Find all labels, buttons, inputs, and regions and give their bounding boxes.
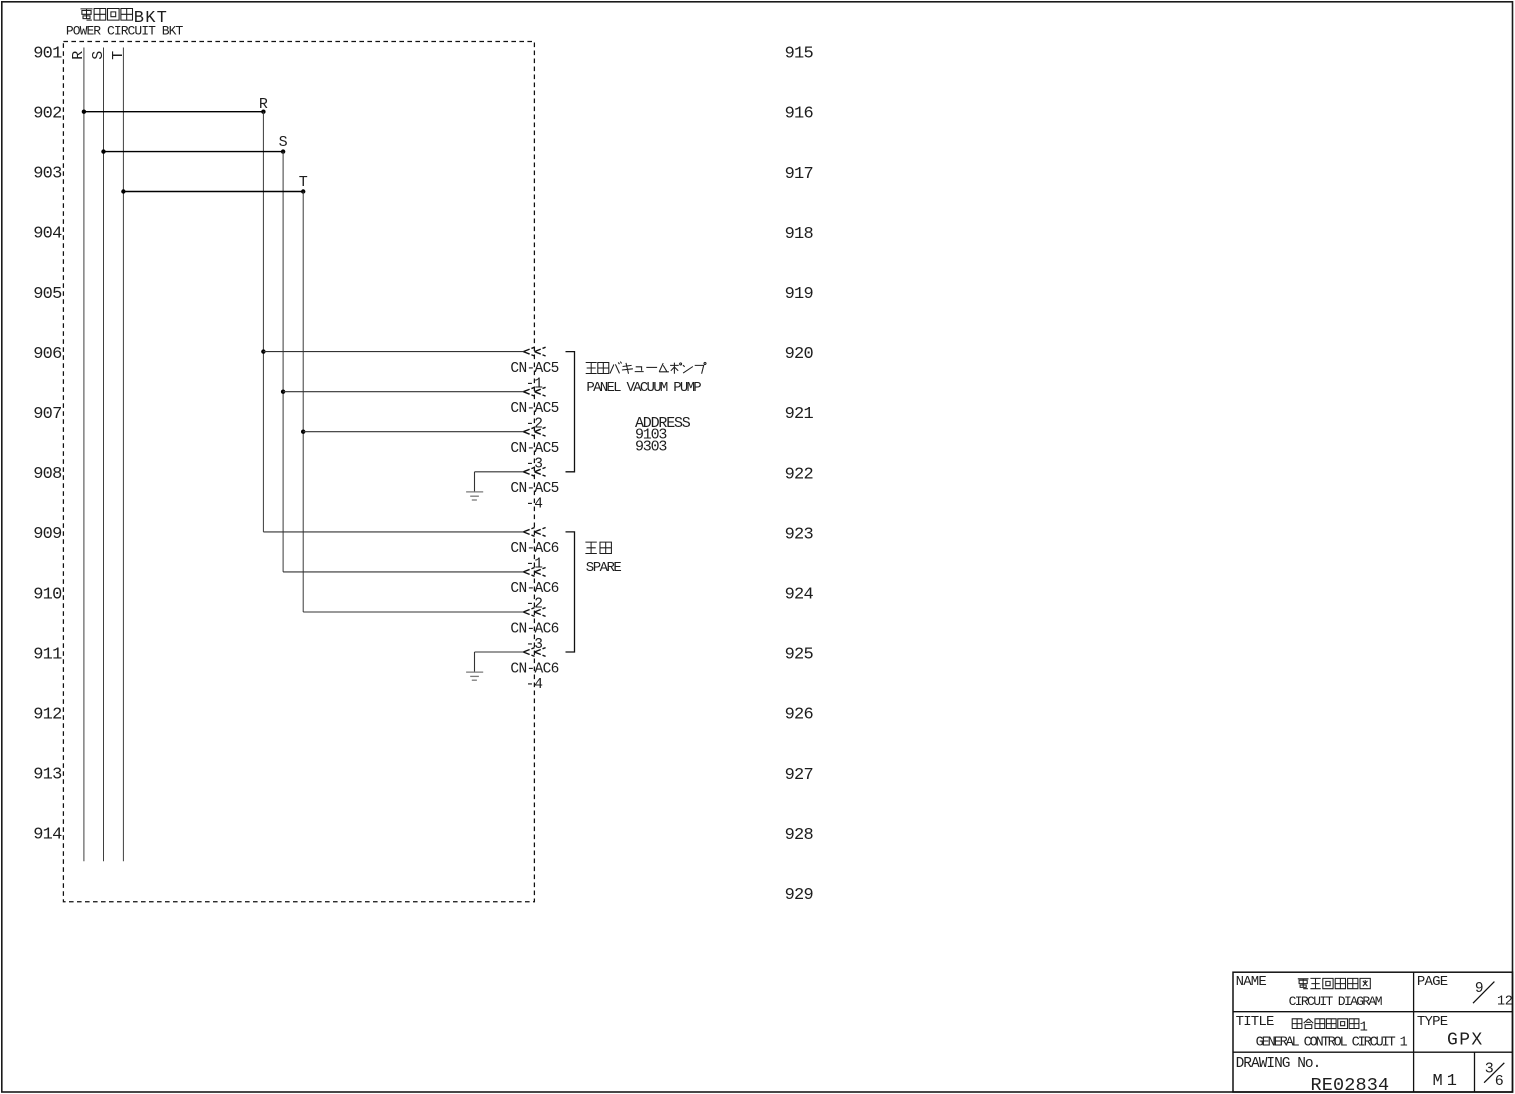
wire to CN-AC5-2 xyxy=(283,391,523,393)
svg-text:911: 911 xyxy=(33,645,62,664)
junction dot S branch to CN-AC5-2 xyxy=(281,390,285,394)
junction dot wire T top xyxy=(301,189,305,193)
svg-text:918: 918 xyxy=(785,225,814,244)
connector contact CN-AC5-1 xyxy=(523,347,545,356)
svg-text:901: 901 xyxy=(33,44,62,63)
svg-text:T: T xyxy=(110,51,127,60)
connector contact CN-AC6-1 xyxy=(523,528,545,537)
svg-text:SPARE: SPARE xyxy=(586,560,622,576)
svg-text:RE02834: RE02834 xyxy=(1311,1075,1390,1094)
svg-text:916: 916 xyxy=(785,105,814,124)
title block frame xyxy=(1233,972,1513,1092)
svg-text:929: 929 xyxy=(785,886,814,905)
svg-text:912: 912 xyxy=(33,706,61,725)
svg-text:903: 903 xyxy=(33,165,62,184)
bracket CN-AC6 group xyxy=(566,532,575,652)
svg-text:905: 905 xyxy=(33,285,62,304)
svg-text:M1: M1 xyxy=(1433,1072,1461,1091)
svg-text:POWER CIRCUIT BKT: POWER CIRCUIT BKT xyxy=(66,24,184,39)
svg-text:-4: -4 xyxy=(526,497,543,513)
connector contact CN-AC5-4 xyxy=(523,467,545,476)
wire to CN-AC6-1 xyxy=(263,531,523,533)
label 電気回路線図 (circuit diagram, Japanese) xyxy=(1298,978,1371,988)
wire S phase horizontal xyxy=(104,151,284,153)
junction dot wire R top xyxy=(261,110,265,114)
svg-text:913: 913 xyxy=(33,766,62,785)
bus S vertical line xyxy=(103,48,105,862)
svg-text:906: 906 xyxy=(33,345,62,364)
connector contact CN-AC5-3 xyxy=(523,427,545,436)
svg-text:R: R xyxy=(259,96,268,113)
wire S vertical dropper xyxy=(282,152,284,572)
svg-text:GENERAL CONTROL CIRCUIT 1: GENERAL CONTROL CIRCUIT 1 xyxy=(1256,1036,1408,1051)
bus R vertical line xyxy=(83,48,85,862)
pin label CN-AC5-2 xyxy=(510,401,558,433)
svg-text:1: 1 xyxy=(1360,1019,1368,1035)
svg-text:PANEL VACUUM PUMP: PANEL VACUUM PUMP xyxy=(586,380,701,396)
wire to CN-AC6-4 (ground) xyxy=(475,651,524,653)
power circuit BKT dashed enclosure xyxy=(63,42,534,902)
svg-text:923: 923 xyxy=(785,525,814,544)
svg-text:DRAWING No.: DRAWING No. xyxy=(1236,1056,1321,1072)
sheet 3/6 xyxy=(1484,1061,1504,1091)
connector contact CN-AC6-3 xyxy=(523,608,545,617)
junction dot wire S top xyxy=(281,149,285,153)
svg-text:6: 6 xyxy=(1495,1073,1504,1090)
svg-text:921: 921 xyxy=(785,405,814,424)
svg-text:908: 908 xyxy=(33,465,62,484)
wire T phase horizontal xyxy=(123,191,303,193)
svg-text:924: 924 xyxy=(785,586,814,605)
svg-text:TITLE: TITLE xyxy=(1236,1014,1274,1030)
pin label CN-AC5-4 xyxy=(510,481,558,512)
svg-text:CN-AC6: CN-AC6 xyxy=(510,581,558,597)
connector contact CN-AC5-2 xyxy=(523,387,545,396)
svg-text:9303: 9303 xyxy=(635,438,667,455)
svg-text:CN-AC5: CN-AC5 xyxy=(510,401,558,417)
svg-text:919: 919 xyxy=(785,285,814,304)
ground symbol (CN-AC5-4) xyxy=(466,492,483,500)
svg-text:902: 902 xyxy=(33,105,61,124)
pin label CN-AC6-1 xyxy=(510,541,558,573)
svg-text:CN-AC5: CN-AC5 xyxy=(510,481,558,497)
svg-text:910: 910 xyxy=(33,585,62,604)
label 電源回路BKT (power circuit BKT, Japanese) xyxy=(81,9,169,28)
svg-text:914: 914 xyxy=(33,826,62,845)
svg-text:CN-AC6: CN-AC6 xyxy=(510,661,558,677)
junction dot T branch to CN-AC5-3 xyxy=(301,430,305,434)
wire to CN-AC6-2 xyxy=(283,571,523,573)
svg-text:922: 922 xyxy=(785,465,813,484)
svg-text:907: 907 xyxy=(33,405,61,424)
bracket CN-AC5 group xyxy=(566,352,575,472)
svg-text:915: 915 xyxy=(785,45,814,64)
pin label CN-AC6-2 xyxy=(510,581,558,613)
wire to CN-AC6-3 xyxy=(303,611,523,613)
svg-text:S: S xyxy=(279,134,288,151)
svg-text:12: 12 xyxy=(1497,994,1513,1009)
svg-text:925: 925 xyxy=(785,646,814,665)
label 総合制御回路1 (general control circuit 1, Japanese) xyxy=(1292,1019,1368,1036)
junction dot on bus T xyxy=(121,189,125,193)
wire to CN-AC5-1 xyxy=(263,351,523,353)
page number 9/12 xyxy=(1473,981,1513,1009)
wire T vertical dropper xyxy=(302,192,304,613)
wire CN-AC6-4 ground stem xyxy=(474,652,476,672)
svg-text:927: 927 xyxy=(785,766,813,785)
svg-text:CN-AC6: CN-AC6 xyxy=(510,621,558,637)
wire to CN-AC5-3 xyxy=(303,431,523,433)
pin label CN-AC5-1 xyxy=(510,361,558,393)
svg-text:GPX: GPX xyxy=(1447,1031,1484,1051)
wire CN-AC5-4 ground stem xyxy=(474,472,476,492)
wire R vertical dropper xyxy=(262,112,264,532)
pin label CN-AC5-3 xyxy=(510,441,558,473)
svg-text:909: 909 xyxy=(33,525,62,544)
svg-text:904: 904 xyxy=(33,225,62,244)
svg-text:926: 926 xyxy=(785,706,814,725)
pin label CN-AC6-4 xyxy=(510,661,558,693)
bus T vertical line xyxy=(122,48,124,862)
ground symbol (CN-AC6-4) xyxy=(466,672,483,680)
pin label CN-AC6-3 xyxy=(510,621,558,653)
svg-text:CN-AC5: CN-AC5 xyxy=(510,361,558,377)
svg-text:CIRCUIT DIAGRAM: CIRCUIT DIAGRAM xyxy=(1289,994,1382,1009)
svg-text:T: T xyxy=(299,174,308,191)
wire R phase 902 horizontal xyxy=(84,111,264,113)
connector contact CN-AC6-2 xyxy=(523,568,545,577)
svg-text:R: R xyxy=(70,51,87,60)
junction dot on bus R xyxy=(82,110,86,114)
svg-text:920: 920 xyxy=(785,345,814,364)
svg-text:917: 917 xyxy=(785,165,813,184)
svg-text:928: 928 xyxy=(785,826,814,845)
wire to CN-AC5-4 (ground) xyxy=(475,471,524,473)
svg-text:-4: -4 xyxy=(526,677,543,693)
svg-text:NAME: NAME xyxy=(1236,974,1267,990)
svg-text:PAGE: PAGE xyxy=(1417,974,1448,990)
svg-text:S: S xyxy=(90,51,107,60)
junction dot on bus S xyxy=(101,149,105,153)
label 予備 (spare, Japanese) xyxy=(585,542,611,553)
label 基板バキュームポンプ (panel vacuum pump, Japanese) xyxy=(586,362,706,374)
junction dot R branch to CN-AC5-1 xyxy=(261,349,265,353)
svg-text:TYPE: TYPE xyxy=(1417,1014,1448,1030)
svg-text:CN-AC6: CN-AC6 xyxy=(510,541,558,557)
connector contact CN-AC6-4 xyxy=(523,648,545,657)
svg-text:CN-AC5: CN-AC5 xyxy=(510,441,558,457)
